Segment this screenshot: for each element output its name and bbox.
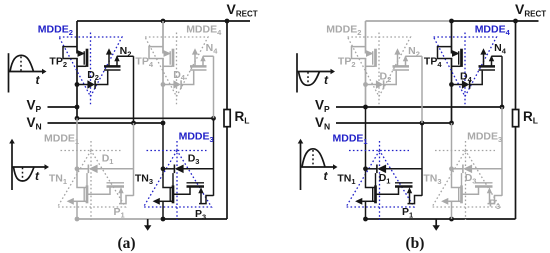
dotted trough marker (307, 72, 309, 84)
input waveform symbol (top) vertical axis (296, 53, 298, 92)
transistor TP4 source arrow (164, 50, 172, 57)
diode D4 triangle (173, 80, 180, 88)
MDDE2 drain wire to V_P (76, 59, 78, 108)
dotted peak marker (312, 150, 314, 167)
transistor TP4 drain stub (163, 65, 172, 67)
diode D4 cathode bar (180, 80, 182, 88)
V_N rail wire (336, 122, 452, 124)
transistor P1 source arrow (120, 192, 122, 203)
MDDE2 dashed triangle (348, 37, 411, 97)
MDDE4 dashed center line (464, 33, 466, 106)
V_RECT top rail (77, 20, 250, 22)
transistor TN1 gate bar (372, 188, 374, 202)
transistor P1 channel bar (107, 185, 125, 188)
MDDE4 dashed triangle (145, 37, 208, 97)
svg-text:(b): (b) (406, 235, 425, 252)
input waveform symbol (top) horizontal axis (297, 71, 332, 73)
svg-text:MDDE1: MDDE1 (333, 133, 368, 146)
MDDE3 drain wire from V_N (451, 123, 453, 169)
transistor P3 drain wire (174, 187, 190, 195)
svg-text:MDDE4: MDDE4 (475, 24, 511, 37)
input waveform symbol (bottom) horizontal axis (301, 166, 335, 168)
diode D2 cathode wire to N2 gate (95, 71, 108, 85)
transistor TN3 source drop wire (162, 201, 164, 219)
transistor P1 channel bar (395, 185, 413, 188)
node dot top rail / RL branch (513, 19, 518, 24)
transistor TN1 source wire (74, 200, 86, 202)
transistor N4 source tail wire (203, 55, 214, 57)
MDDE4 dashed center line (176, 33, 178, 106)
transistor N4 source arrow (202, 56, 204, 66)
node dot top rail / RL branch (225, 19, 230, 24)
MDDE4 drain wire to V_N (162, 59, 164, 124)
transistor TN3 channel bar (460, 185, 463, 203)
transistor N2 drain arrow up (397, 54, 399, 67)
transistor TN1 gate bar (83, 188, 85, 202)
transistor P3 source staircase wire (199, 196, 214, 204)
MDDE2 drain/diode node dot (363, 82, 368, 87)
input waveform symbol (bottom) vertical axis (11, 143, 13, 191)
svg-text:MDDE4: MDDE4 (186, 24, 222, 37)
P3 source column wire (501, 107, 503, 196)
transistor N2 channel bar (104, 65, 121, 68)
svg-text:MDDE2: MDDE2 (326, 24, 361, 37)
transistor TP2 source arrow (78, 50, 86, 57)
MDDE1 dashed triangle (346, 151, 414, 208)
transistor TN3 drain elbow wire (163, 169, 172, 188)
transistor TP4 source arrow (452, 50, 460, 57)
V_RECT top rail (366, 20, 452, 22)
transistor P3 channel bar (187, 185, 205, 188)
transistor TP2 gate bar (372, 51, 374, 64)
transistor P1 source arrow (409, 192, 411, 203)
diode D2 anode wire (366, 84, 377, 86)
transistor TP2 gate loop wire (352, 47, 367, 59)
diode D3 cathode stub to TN3 drain (461, 173, 463, 186)
resistor RL (513, 110, 519, 127)
svg-text:MDDE1: MDDE1 (44, 133, 79, 146)
transistor TN3 gate bar (169, 188, 171, 202)
transistor P3 source arrow (200, 192, 202, 203)
diode D2 anode wire (77, 84, 88, 86)
node dot V_P jog (75, 116, 80, 121)
MDDE2 dashed center line (378, 33, 380, 106)
N2 source tail vertical wire (133, 56, 135, 123)
transistor N4 channel bar (479, 65, 496, 68)
transistor TN3 source arrow (441, 198, 448, 205)
diode D1 cathode bar (87, 165, 89, 174)
input waveform symbol (top) vertical axis (8, 53, 10, 92)
transistor N2 drain arrow up (108, 54, 110, 67)
transistor TP2 channel bar (86, 49, 89, 67)
MDDE3 dashed triangle (432, 151, 500, 208)
transistor P1 drain wire (377, 187, 399, 195)
ground arrow (147, 219, 149, 226)
V_N rail wire (48, 122, 164, 124)
diode D2 cathode wire to N2 gate (384, 71, 397, 85)
ground arrow (435, 219, 437, 226)
positive half sine (10, 55, 34, 71)
diode D3 cathode stub to TN3 drain (172, 173, 174, 186)
ground rail (77, 218, 163, 220)
MDDE4 source wire from V_RECT (162, 21, 164, 54)
diode D3 cathode bar (462, 165, 464, 174)
transistor N4 gate bar (190, 69, 207, 71)
MDDE2 dashed triangle (59, 37, 122, 97)
MDDE4 drain/diode node dot (161, 82, 166, 87)
input waveform symbol (top) horizontal axis (9, 71, 44, 73)
positive half sine (302, 149, 325, 167)
transistor TP2 channel bar (374, 49, 377, 67)
transistor TP4 drain stub (452, 65, 461, 67)
transistor TN1 source drop wire (76, 201, 78, 219)
V_P wire stub (48, 106, 78, 108)
diode D1 cathode wire (366, 168, 377, 170)
transistor P3 drain wire (463, 187, 479, 195)
MDDE3 dashed apex line (435, 150, 495, 152)
MDDE3 dashed apex line (147, 150, 207, 152)
N4 source tail vertical wire (213, 56, 215, 118)
transistor TP4 gate loop wire (438, 47, 453, 59)
RL bottom wire (226, 127, 228, 219)
MDDE2 source wire from V_RECT (365, 21, 367, 54)
negative half sine (299, 72, 320, 86)
ground rail (366, 218, 516, 220)
transistor N4 gate bar (479, 69, 496, 71)
transistor N4 source tail wire (492, 55, 503, 57)
transistor P1 source staircase wire (119, 196, 134, 204)
transistor TP4 gate bar (169, 51, 171, 64)
node dot top rail / MDDE4 source (449, 19, 454, 24)
node dot V_P / MDDE3 P3 column (211, 116, 216, 121)
transistor TN1 source wire (362, 200, 374, 202)
transistor P3 source staircase wire (488, 196, 503, 204)
V_P rail wire (336, 106, 502, 108)
transistor TP4 channel bar (460, 49, 463, 67)
negative half sine (14, 167, 35, 181)
node dot top rail / MDDE4 source (161, 19, 166, 24)
diode D4 cathode wire to N4 gate (470, 71, 483, 85)
diode D3 node dot (161, 166, 166, 171)
diode D1 node dot (363, 166, 368, 171)
node dot V_N / N2 tail (420, 121, 425, 126)
diode D3 node dot (449, 166, 454, 171)
transistor TN1 source drop wire (365, 201, 367, 219)
diode D1 cathode bar (376, 165, 378, 174)
resistor RL (224, 110, 230, 127)
diode D1 anode wire (97, 168, 133, 170)
dotted peak marker (20, 57, 22, 72)
transistor TP2 drain stub (77, 65, 86, 67)
MDDE2 drain/diode node dot (75, 82, 80, 87)
MDDE2 source wire from V_RECT (76, 21, 78, 54)
diode D3 anode wire (183, 168, 213, 170)
V_P jog wire (77, 107, 214, 118)
RL top wire (226, 21, 228, 109)
transistor P1 drain wire (88, 187, 110, 195)
transistor P1 gate bar (107, 182, 125, 184)
N4 source tail vertical wire (501, 56, 503, 107)
MDDE1 dashed apex line (349, 150, 409, 152)
diode D2 cathode bar (383, 80, 385, 88)
diode D3 anode wire (472, 168, 502, 170)
diode D4 triangle (462, 80, 469, 88)
transistor TP2 gate bar (83, 51, 85, 64)
diode D4 cathode wire to N4 gate (181, 71, 194, 85)
transistor P3 channel bar (475, 185, 493, 188)
diode D1 cathode stub to TN1 drain (86, 173, 88, 186)
transistor N4 drain arrow up (194, 54, 196, 67)
diode D2 cathode bar (94, 80, 96, 88)
transistor P3 gate bar (187, 182, 205, 184)
diode D1 triangle (377, 165, 386, 174)
P1 source column wire (133, 123, 135, 196)
diode D2 triangle (376, 80, 383, 88)
transistor TN3 source wire (448, 200, 460, 202)
transistor TP2 source arrow (366, 50, 374, 57)
svg-text:MDDE2: MDDE2 (38, 24, 73, 37)
RL top wire (515, 21, 517, 109)
P3 source column wire (213, 118, 215, 196)
transistor TN3 source drop wire (451, 201, 453, 219)
transistor P3 source arrow (489, 192, 491, 203)
transistor N2 channel bar (393, 65, 410, 68)
transistor TN1 drain elbow wire (77, 169, 86, 188)
dotted trough marker (22, 168, 24, 181)
MDDE1 dashed center line (90, 141, 92, 220)
transistor TP2 gate loop wire (63, 47, 78, 59)
transistor P3 gate bar (475, 182, 493, 184)
transistor N4 channel bar (190, 65, 207, 68)
node dot V_P / MDDE2 drain (75, 105, 80, 110)
diode D4 cathode bar (469, 80, 471, 88)
transistor N2 gate bar (393, 69, 410, 71)
MDDE3 dashed center line (176, 141, 178, 220)
transistor P1 gate bar (395, 182, 413, 184)
MDDE1 drain wire from V_P (365, 107, 367, 169)
transistor TP2 drain stub (366, 65, 375, 67)
MDDE4 drain/diode node dot (449, 82, 454, 87)
P1 source column wire (421, 123, 423, 196)
node dot V_N / MDDE4 drain and MDDE3 drain (161, 121, 166, 126)
transistor N2 gate bar (104, 69, 121, 71)
svg-text:(a): (a) (117, 235, 135, 252)
input waveform symbol (bottom) horizontal axis (12, 166, 46, 168)
transistor TN1 source arrow (67, 198, 74, 205)
node dot V_N / MDDE4 drain and MDDE3 drain (449, 121, 454, 126)
diode D3 cathode wire (163, 168, 174, 170)
diode D1 node dot (75, 166, 80, 171)
transistor TN1 channel bar (86, 185, 89, 203)
MDDE1 dashed triangle (58, 151, 126, 208)
MDDE1 dashed center line (379, 141, 381, 220)
transistor TP4 gate loop wire (149, 47, 164, 59)
diode D3 triangle (175, 165, 184, 174)
transistor TN3 drain elbow wire (452, 169, 461, 188)
MDDE3 dashed triangle (144, 151, 212, 208)
diode D3 cathode wire (452, 168, 463, 170)
diode D1 triangle (89, 165, 98, 174)
transistor TN3 channel bar (172, 185, 175, 203)
svg-text:MDDE3: MDDE3 (179, 131, 214, 144)
transistor N2 source arrow (116, 56, 118, 66)
transistor N2 source tail wire (117, 55, 134, 57)
diode D3 cathode bar (173, 165, 175, 174)
transistor N4 source arrow (491, 56, 493, 66)
input waveform symbol (bottom) vertical axis (300, 143, 302, 191)
transistor TP4 channel bar (172, 49, 175, 67)
node dot V_P / MDDE4 N4 tail (500, 105, 505, 110)
diode D1 cathode wire (77, 168, 88, 170)
MDDE1 drain wire from V_P (76, 118, 78, 169)
diode D1 cathode stub to TN1 drain (375, 173, 377, 186)
transistor TN3 source wire (160, 200, 172, 202)
transistor TN3 gate bar (458, 188, 460, 202)
MDDE2 drain wire to V_P (365, 59, 367, 108)
transistor TP4 gate bar (458, 51, 460, 64)
N2 source tail vertical wire (421, 56, 423, 123)
node dot V_P / MDDE1 drain (363, 105, 368, 110)
transistor N4 drain arrow up (483, 54, 485, 67)
transistor N2 source tail wire (406, 55, 423, 57)
MDDE2 dashed center line (90, 33, 92, 106)
MDDE4 dashed triangle (434, 37, 497, 97)
transistor TN3 source arrow (153, 198, 160, 205)
transistor TN1 drain elbow wire (366, 169, 375, 188)
RL bottom wire (515, 127, 517, 219)
MDDE4 drain wire to V_N (451, 59, 453, 124)
transistor N2 source arrow (405, 56, 407, 66)
diode D1 anode wire (386, 168, 422, 170)
MDDE3 dashed center line (465, 141, 467, 220)
diode D2 triangle (87, 80, 94, 88)
svg-text:MDDE3: MDDE3 (467, 131, 502, 144)
transistor P1 source staircase wire (408, 196, 423, 204)
MDDE4 source wire from V_RECT (451, 21, 453, 54)
node dot V_N / N2 tail (131, 121, 136, 126)
diode D4 anode wire (163, 84, 174, 86)
transistor TN1 source arrow (355, 198, 362, 205)
transistor TN1 channel bar (374, 185, 377, 203)
diode D4 anode wire (452, 84, 463, 86)
MDDE3 drain wire from V_N (162, 123, 164, 169)
MDDE1 dashed apex line (61, 150, 121, 152)
diode D3 triangle (463, 165, 472, 174)
